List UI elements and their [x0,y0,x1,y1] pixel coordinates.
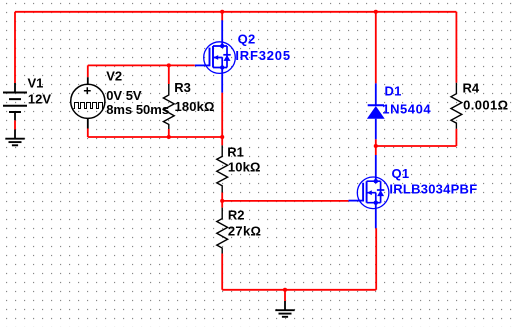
svg-text:0.001Ω: 0.001Ω [463,97,508,112]
svg-text:1N5404: 1N5404 [382,101,431,116]
svg-text:R3: R3 [174,80,191,95]
svg-text:180kΩ: 180kΩ [175,99,215,114]
svg-text:R1: R1 [227,144,244,159]
svg-text:8ms 50ms: 8ms 50ms [106,102,169,117]
svg-text:V2: V2 [106,69,122,84]
svg-text:IRLB3034PBF: IRLB3034PBF [389,182,477,197]
svg-text:D1: D1 [385,84,402,99]
svg-text:Q2: Q2 [238,31,256,46]
svg-text:10kΩ: 10kΩ [228,160,261,175]
svg-text:IRF3205: IRF3205 [235,48,290,63]
svg-text:Q1: Q1 [392,166,410,181]
svg-text:R4: R4 [463,81,480,96]
svg-text:12V: 12V [28,92,51,107]
svg-text:27kΩ: 27kΩ [228,223,261,238]
svg-text:V1: V1 [28,75,44,90]
svg-text:R2: R2 [228,208,245,223]
